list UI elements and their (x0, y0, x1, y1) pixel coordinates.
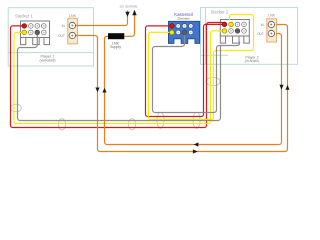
LNK2 circles (268, 21, 274, 36)
middle connector body (blue 8-pin) (169, 21, 200, 43)
wire orange W2 (LNK supply to Zentrale) (124, 15, 134, 37)
connector 2 body (gray 8-pin) (220, 20, 249, 44)
wire orange W4 (LNK2 OUT to LNK supply) (105, 34, 282, 145)
panel box 1 (Stecker 1 station) (8, 8, 93, 66)
connector 1 pins (22, 24, 46, 35)
panel box 2 (Stecker 2 station) (201, 7, 298, 64)
LNK1 circles (69, 22, 75, 38)
connector 2 pins (222, 22, 246, 33)
LNK box 1 (68, 18, 78, 44)
wire red B (middle connector to connector2) (146, 24, 225, 116)
wire yellow A (connector1 to connector2) (14, 31, 225, 124)
wire gray A (connector1 to connector2 leg) (18, 32, 221, 120)
LNK supply box (108, 33, 124, 39)
svg-text:Stecker 1: Stecker 1 (15, 14, 33, 19)
wire orange W1 (Zentrale to LNK1 IN) (76, 11, 128, 26)
LNK box 2 (267, 19, 277, 42)
flow arrows (95, 88, 99, 93)
svg-text:(Zentrale): (Zentrale) (177, 17, 189, 21)
middle connector pins (170, 24, 194, 35)
cable tie markers (11, 77, 221, 130)
connector 1 body (gray 8-pin) (21, 21, 50, 45)
svg-text:Stecker 2: Stecker 2 (211, 10, 229, 15)
svg-text:(verkabelt): (verkabelt) (39, 58, 55, 62)
svg-text:Supply: Supply (110, 45, 121, 49)
svg-text:LNK: LNK (268, 14, 275, 18)
svg-text:OUT: OUT (257, 32, 264, 36)
svg-text:zur Zentrale: zur Zentrale (119, 5, 137, 9)
wire orange W3 (LNK1 OUT to LNK2 IN) (76, 25, 288, 152)
svg-text:(in Arbeit): (in Arbeit) (245, 59, 259, 63)
wire yellow B (middle connector loop over connector2) (149, 15, 254, 120)
wire gray B (middle connector to connector2 leg) (153, 32, 240, 112)
svg-text:LNK: LNK (69, 14, 76, 18)
svg-text:OUT: OUT (58, 34, 65, 38)
wire red A (connector1 to connector2) (11, 23, 224, 128)
